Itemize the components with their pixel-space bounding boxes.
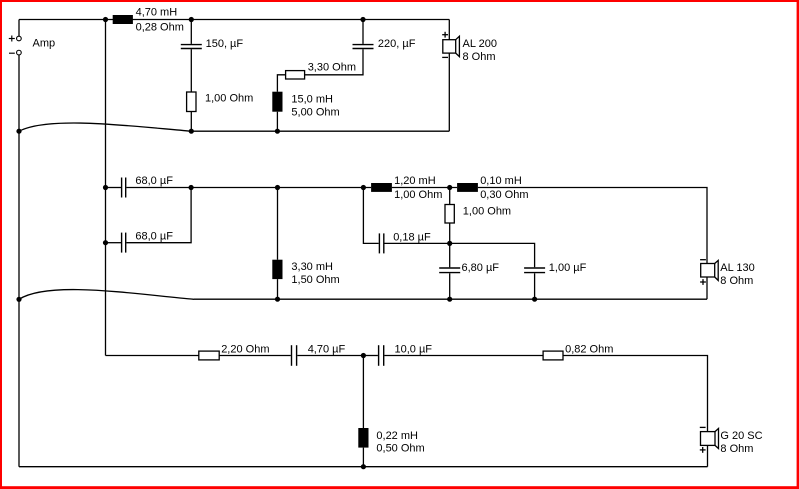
svg-text:0,22 mH: 0,22 mH (376, 430, 418, 442)
wire 220uF down and left to resistor 3,30 Ohm (305, 49, 364, 75)
node junction mid rail at 3,30 mH branch (275, 185, 280, 190)
capacitor 10,0 uF (363, 344, 543, 366)
svg-text:68,0 µF: 68,0 µF (135, 175, 173, 187)
node junction bottom circuit at 0,22 mH branch (361, 353, 366, 358)
wire top circuit bottom rail (191, 130, 449, 132)
node junction bottom rail at resistor (189, 129, 194, 134)
wire mid rail to speaker AL 130 (478, 188, 707, 264)
svg-text:15,0 mH: 15,0 mH (291, 94, 333, 106)
wire resistor to 4,70uF (219, 355, 291, 357)
node junction bus at 68uF lower (103, 240, 108, 245)
node junction bottom rail at 0,22 mH (361, 464, 366, 469)
node junction mid bottom rail at 6,80uF (447, 297, 452, 302)
svg-text:G 20 SC: G 20 SC (720, 430, 762, 442)
wire to 1,00uF branch (450, 243, 535, 267)
svg-text:0,10 mH: 0,10 mH (480, 175, 522, 187)
node junction bus at 68uF upper (103, 185, 108, 190)
wire bottom rail (19, 466, 708, 468)
wire 0,22 mH branch (362, 356, 364, 429)
svg-text:150, µF: 150, µF (206, 38, 244, 50)
wire 220uF branch upper (362, 20, 364, 44)
node junction top rail at bus (103, 17, 108, 22)
node junction mid bottom rail at 1,00uF (532, 297, 537, 302)
svg-text:1,00 Ohm: 1,00 Ohm (463, 206, 511, 218)
resistor 2,20 Ohm (199, 344, 270, 360)
inductor 0,22 mH 0,50 Ohm (358, 428, 424, 454)
wire inductor to mid bottom rail (277, 279, 279, 299)
svg-text:8 Ohm: 8 Ohm (720, 275, 753, 287)
svg-text:68,0 µF: 68,0 µF (135, 231, 173, 243)
resistor 1,00 Ohm mid circuit (445, 188, 511, 244)
wire speaker AL 200 down to bottom rail (448, 53, 450, 131)
node junction bottom rail at inductor (275, 129, 280, 134)
speaker G 20 SC 8 Ohm (700, 427, 763, 455)
capacitor 0,18 uF (379, 231, 449, 253)
inductor 4,70 mH 0,28 Ohm (113, 15, 133, 24)
wire vertical bus x=105.5 (105, 20, 107, 356)
wire 150uF branch upper (190, 20, 192, 44)
capacitor 1,00 uF (524, 262, 587, 299)
wire curved hop top circuit return (19, 123, 191, 131)
resistor 0,82 Ohm (543, 344, 613, 360)
svg-text:3,30 Ohm: 3,30 Ohm (308, 61, 356, 73)
wire 3,30 mH branch (277, 188, 279, 260)
svg-text:AL 130: AL 130 (720, 262, 754, 274)
svg-text:4,70 mH: 4,70 mH (136, 6, 178, 18)
wire resistor to speaker G 20 SC (563, 356, 708, 432)
node junction mid rail at 1,00 Ohm branch (447, 185, 452, 190)
svg-text:8 Ohm: 8 Ohm (463, 51, 496, 63)
svg-text:5,00 Ohm: 5,00 Ohm (291, 106, 339, 118)
wire inductor to bottom rail (276, 112, 278, 132)
capacitor 68,0 uF upper (106, 175, 192, 197)
wire mid circuit bottom rail (194, 298, 707, 300)
wire top rail (19, 19, 449, 21)
inductor 15,0 mH 5,00 Ohm (272, 92, 339, 119)
wire resistor to bottom rail (190, 112, 192, 132)
svg-text:0,82 Ohm: 0,82 Ohm (565, 344, 613, 356)
wire speaker G 20 SC to bottom rail (707, 445, 709, 466)
speaker AL 130 8 Ohm (700, 260, 755, 287)
svg-text:1,00 Ohm: 1,00 Ohm (394, 189, 442, 201)
svg-text:0,30 Ohm: 0,30 Ohm (480, 189, 528, 201)
svg-text:0,50 Ohm: 0,50 Ohm (376, 442, 424, 454)
svg-text:2,20 Ohm: 2,20 Ohm (221, 344, 269, 356)
svg-text:Amp: Amp (33, 38, 56, 50)
svg-text:0,18 µF: 0,18 µF (393, 231, 431, 243)
inductor 0,10 mH 0,30 Ohm (457, 175, 528, 201)
resistor 1,00 Ohm top circuit (187, 92, 254, 112)
capacitor 6,80 uF (439, 243, 499, 299)
capacitor 68,0 uF lower (106, 188, 192, 253)
svg-text:1,50 Ohm: 1,50 Ohm (291, 274, 339, 286)
wire curved hop mid circuit return (19, 290, 194, 300)
node junction top rail at 220uF branch (360, 17, 365, 22)
wire 0,18uF branch from mid rail (363, 188, 378, 244)
capacitor 150, uF (181, 38, 244, 50)
capacitor 220, uF (353, 38, 416, 50)
svg-text:AL 200: AL 200 (463, 38, 497, 50)
svg-text:220, µF: 220, µF (378, 38, 416, 50)
inductor 3,30 mH 1,50 Ohm (272, 260, 339, 286)
node junction bottom rail left (16, 129, 21, 134)
node junction mid rail at 0,18uF branch (361, 185, 366, 190)
wire top rail to speaker AL 200 (448, 20, 450, 40)
wire 150uF to resistor (190, 49, 192, 92)
wire from - terminal down left bus (18, 55, 20, 467)
svg-text:10,0 µF: 10,0 µF (395, 344, 433, 356)
inductor 1,20 mH 1,00 Ohm (371, 175, 442, 201)
svg-text:3,30 mH: 3,30 mH (291, 261, 333, 273)
node junction 0,18uF to caps (447, 241, 452, 246)
resistor 3,30 Ohm (286, 61, 356, 79)
wire bus corner to bottom circuit (106, 355, 200, 357)
svg-text:4,70 µF: 4,70 µF (308, 344, 346, 356)
wire mid top rail (191, 187, 371, 189)
wire resistor 3,30 to inductor 15,0 mH (277, 75, 285, 92)
svg-text:1,00 µF: 1,00 µF (549, 262, 587, 274)
node junction mid bottom rail left (16, 297, 21, 302)
source Amp + terminal (9, 36, 21, 42)
wire speaker AL 130 to mid bottom rail (706, 277, 708, 299)
svg-text:0,28 Ohm: 0,28 Ohm (136, 22, 184, 34)
source Amp - terminal (9, 50, 21, 55)
svg-text:6,80 µF: 6,80 µF (462, 262, 500, 274)
svg-text:8 Ohm: 8 Ohm (720, 443, 753, 455)
wire from + terminal up to top rail (18, 20, 20, 37)
speaker AL 200 8 Ohm (442, 32, 497, 63)
wire mid rail between inductors (392, 187, 457, 189)
node junction top rail at 150uF branch (189, 17, 194, 22)
svg-text:1,20 mH: 1,20 mH (394, 175, 436, 187)
node junction mid rail at 68uF join (189, 185, 194, 190)
capacitor 4,70 uF (292, 344, 364, 366)
svg-text:1,00 Ohm: 1,00 Ohm (205, 92, 253, 104)
wire inductor to bottom rail (362, 448, 364, 467)
node junction mid bottom rail at 3,30 mH (275, 297, 280, 302)
